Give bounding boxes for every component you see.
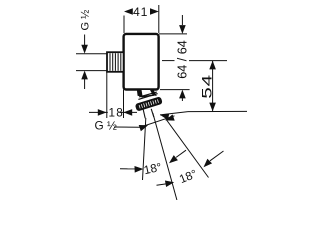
outlet stub right side bbox=[151, 109, 154, 117]
neck right dark bar bbox=[150, 89, 156, 96]
G1/2 leader line bbox=[114, 116, 175, 127]
64/64 arrow down bbox=[179, 25, 186, 34]
svg-text:G ½: G ½ bbox=[95, 118, 117, 132]
angle dim 2 tail right bbox=[210, 151, 224, 161]
outlet level line left segment bbox=[89, 111, 137, 113]
collar ring lower edge bbox=[138, 94, 157, 100]
angle dim 2 arrow left bbox=[165, 179, 175, 187]
swivel ray right bbox=[166, 119, 209, 178]
extension line knurl bottom bbox=[76, 70, 107, 72]
angle dim 1 arrow left bbox=[134, 166, 143, 173]
escutcheon body outline bbox=[124, 34, 159, 90]
hose nut (knurled, tilted) bbox=[135, 96, 163, 111]
G1/2 left arrow down bbox=[81, 45, 88, 54]
angle dim 2 arrow right bbox=[201, 159, 212, 170]
extension line body bottom right bbox=[160, 89, 190, 91]
64/64 dimension line upper bbox=[181, 15, 183, 25]
angle dim 1 arrow right bbox=[167, 155, 178, 166]
18 dimension arrow right bbox=[123, 109, 132, 116]
41 arrow left bbox=[124, 8, 133, 15]
extension line body top right bbox=[159, 33, 187, 35]
svg-text:41: 41 bbox=[133, 5, 148, 19]
54 dimension line bbox=[212, 61, 214, 112]
18 dimension arrow left bbox=[98, 109, 107, 116]
swivel ray middle bbox=[153, 113, 177, 200]
leader arrow right-up bbox=[139, 122, 149, 131]
extension line thread end bbox=[106, 72, 108, 118]
angle dim 2 tail left bbox=[157, 184, 167, 185]
wall inlet knurl bbox=[107, 52, 124, 72]
inlet axis extension line right bbox=[162, 60, 175, 62]
G1/2 left dimension line lower bbox=[84, 79, 86, 89]
outlet stub left side bbox=[143, 110, 145, 119]
41 dimension extension line right bbox=[158, 5, 160, 33]
G1/2 left dimension line upper bbox=[84, 35, 86, 46]
label 18 bbox=[108, 106, 120, 117]
extension line knurl top bbox=[76, 53, 107, 55]
angle dim 1 tail left bbox=[120, 168, 136, 170]
64/64 dimension line lower bbox=[181, 98, 183, 101]
extension line body left lower bbox=[123, 90, 125, 119]
swivel ray left bbox=[143, 118, 146, 180]
G1/2 left arrow up bbox=[81, 71, 88, 80]
collar ring upper edge bbox=[139, 92, 157, 97]
leader arrow left-down bbox=[164, 114, 174, 123]
svg-text:G ½: G ½ bbox=[80, 10, 92, 31]
41 dimension extension line left bbox=[123, 16, 125, 34]
svg-text:54: 54 bbox=[199, 74, 215, 99]
angle dim 1 tail right bbox=[176, 150, 186, 157]
54 arrow up bbox=[209, 61, 216, 70]
outlet level line right segment with arrow to nut bbox=[159, 112, 169, 120]
54 arrow down bbox=[209, 103, 216, 112]
label 54 (rotated) bbox=[200, 72, 212, 100]
knurl hatch lines bbox=[110, 53, 121, 71]
svg-text:64 / 64: 64 / 64 bbox=[176, 40, 190, 79]
64/64 arrow up bbox=[179, 90, 186, 99]
neck left dark bar bbox=[137, 89, 142, 97]
41 arrow right bbox=[150, 8, 159, 15]
connector neck below body bbox=[141, 89, 154, 97]
inlet axis extension line right 2 bbox=[189, 60, 227, 62]
